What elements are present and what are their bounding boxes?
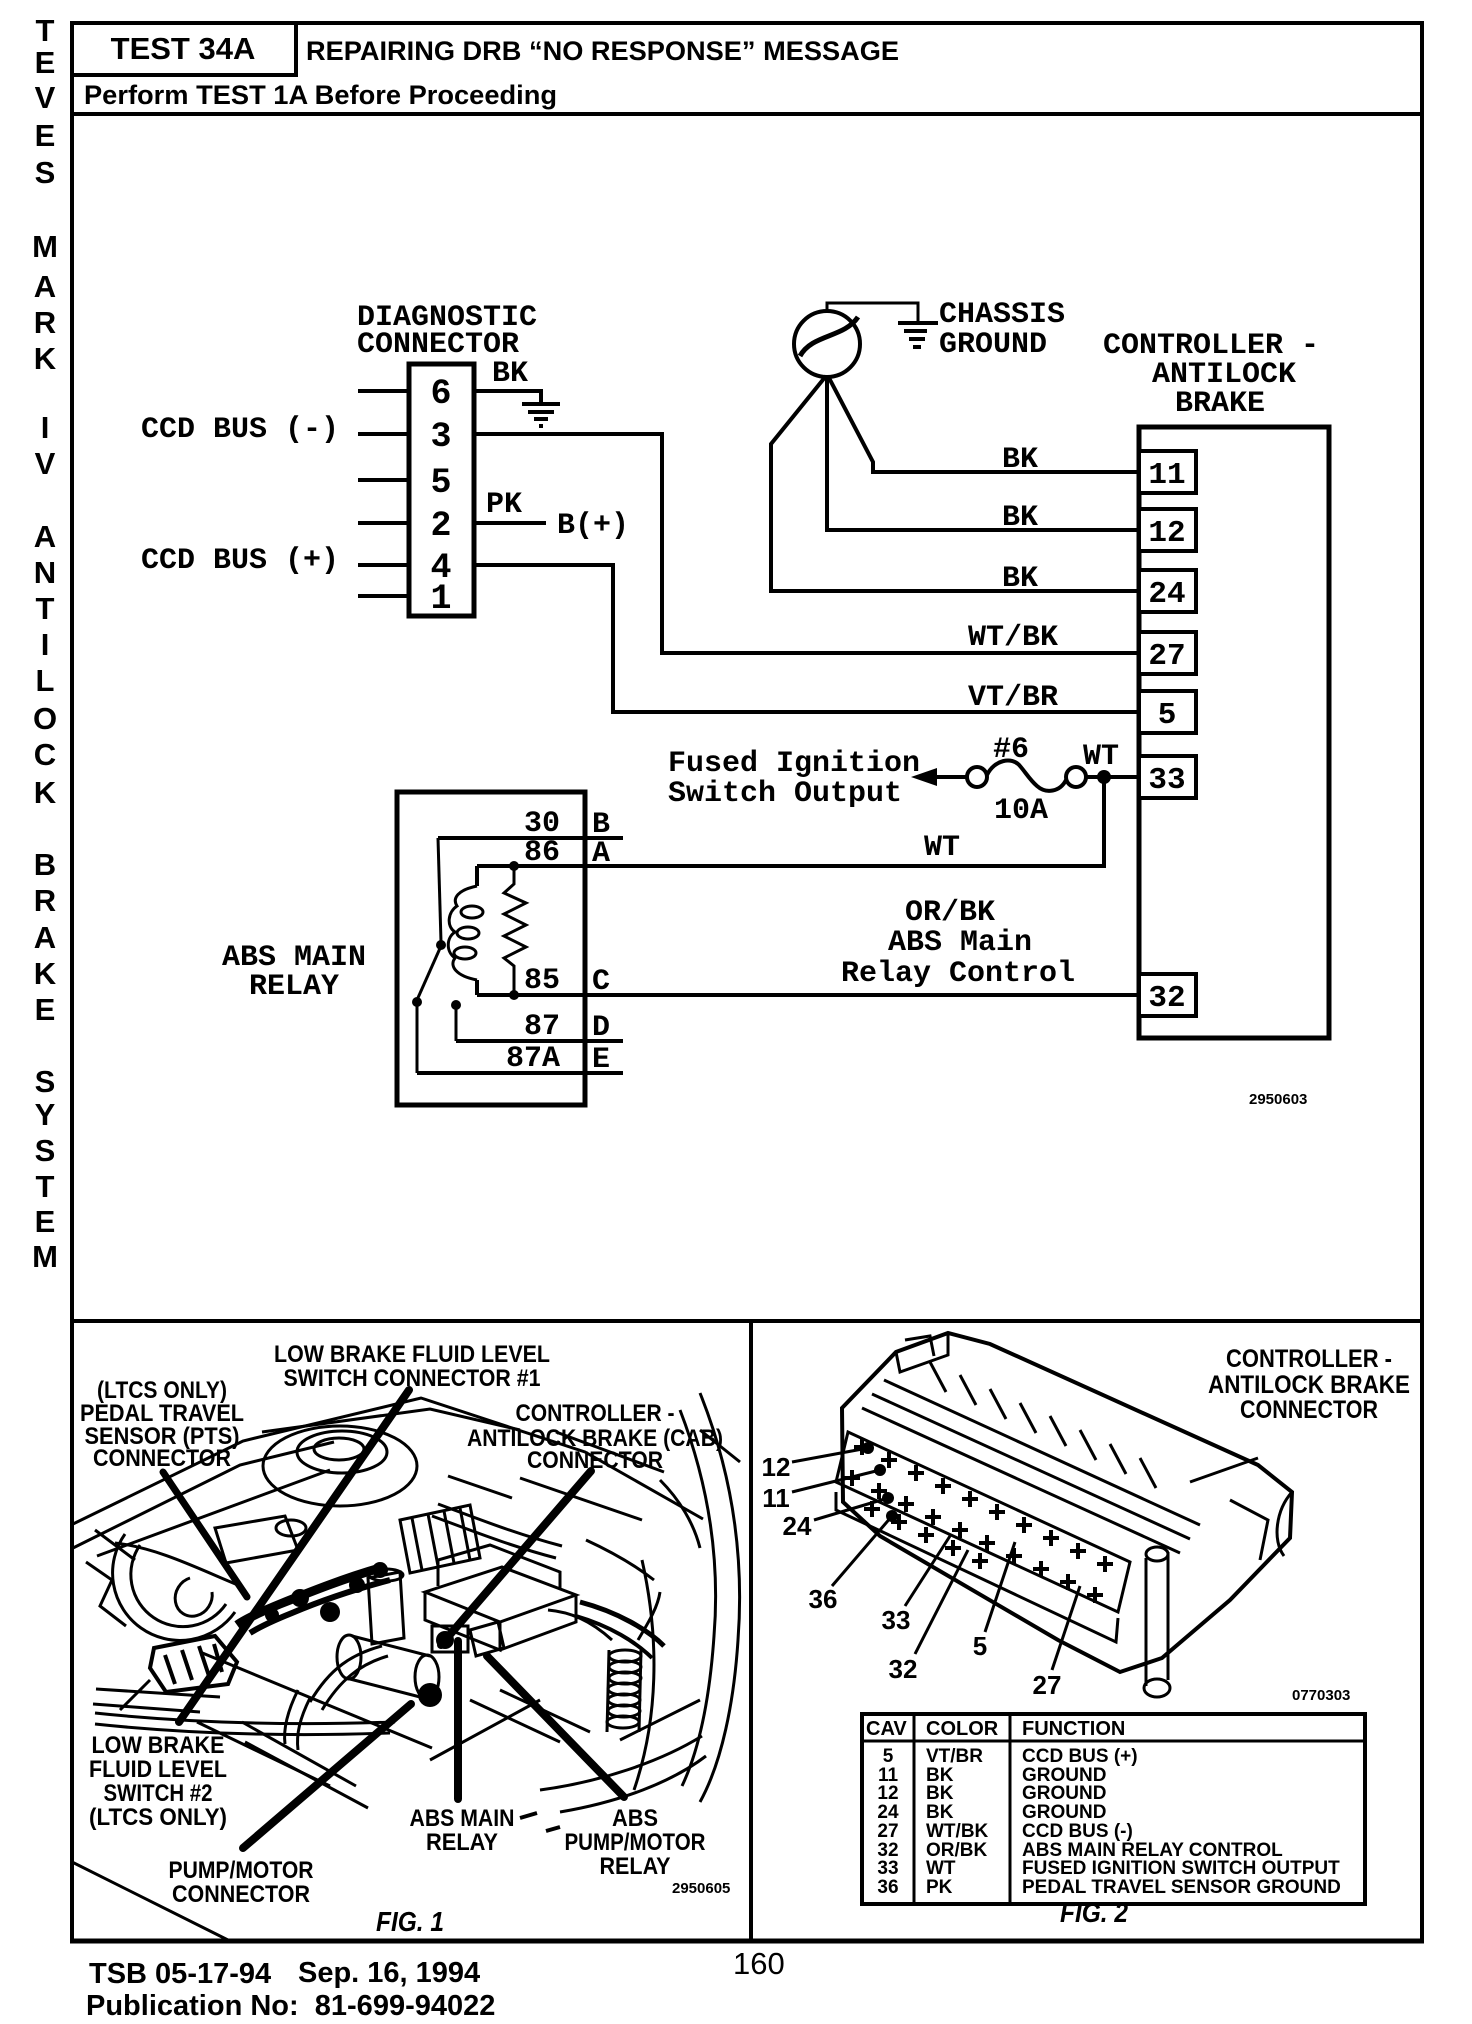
- svg-text:FIG. 1: FIG. 1: [376, 1906, 444, 1937]
- svg-text:C: C: [592, 965, 610, 999]
- svg-text:Relay Control: Relay Control: [841, 957, 1075, 991]
- svg-text:CCD BUS (+): CCD BUS (+): [141, 544, 339, 578]
- svg-text:CAV: CAV: [866, 1718, 907, 1740]
- svg-text:27: 27: [1148, 639, 1185, 674]
- svg-text:2950603: 2950603: [1249, 1091, 1307, 1108]
- svg-text:87: 87: [524, 1010, 560, 1044]
- svg-text:36: 36: [877, 1877, 898, 1898]
- svg-text:REPAIRING DRB “NO RESPONSE” ME: REPAIRING DRB “NO RESPONSE” MESSAGE: [306, 36, 899, 66]
- svg-text:3: 3: [430, 417, 451, 457]
- svg-text:(LTCS ONLY): (LTCS ONLY): [89, 1804, 227, 1831]
- svg-text:GROUND: GROUND: [1022, 1802, 1106, 1823]
- svg-text:R: R: [34, 305, 56, 340]
- svg-text:2950605: 2950605: [672, 1880, 730, 1897]
- svg-text:87A: 87A: [506, 1042, 560, 1076]
- svg-text:CCD BUS (-): CCD BUS (-): [141, 413, 339, 447]
- svg-text:E: E: [592, 1043, 610, 1077]
- svg-text:CONNECTOR: CONNECTOR: [527, 1447, 663, 1474]
- svg-text:TSB 05-17-94: TSB 05-17-94: [89, 1958, 271, 1990]
- svg-text:160: 160: [733, 1946, 785, 1981]
- svg-text:RELAY: RELAY: [600, 1853, 671, 1880]
- svg-text:K: K: [34, 341, 57, 376]
- svg-text:LOW BRAKE FLUID LEVEL: LOW BRAKE FLUID LEVEL: [274, 1341, 550, 1368]
- svg-text:A: A: [34, 269, 56, 304]
- svg-text:5: 5: [883, 1746, 894, 1767]
- svg-text:BK: BK: [492, 357, 528, 391]
- svg-text:SWITCH #2: SWITCH #2: [104, 1780, 213, 1807]
- svg-text:GROUND: GROUND: [1022, 1783, 1106, 1804]
- svg-text:36: 36: [809, 1584, 838, 1614]
- svg-text:BK: BK: [926, 1783, 954, 1804]
- svg-text:GROUND: GROUND: [939, 328, 1047, 362]
- svg-text:V: V: [35, 446, 56, 481]
- svg-text:E: E: [35, 45, 56, 80]
- svg-text:FUNCTION: FUNCTION: [1022, 1718, 1125, 1740]
- svg-text:FUSED IGNITION SWITCH OUTPUT: FUSED IGNITION SWITCH OUTPUT: [1022, 1858, 1340, 1879]
- svg-text:32: 32: [889, 1654, 918, 1684]
- svg-text:T: T: [36, 13, 55, 48]
- svg-text:PUMP/MOTOR: PUMP/MOTOR: [169, 1857, 314, 1884]
- svg-text:BK: BK: [1002, 562, 1038, 596]
- svg-text:FLUID LEVEL: FLUID LEVEL: [89, 1756, 227, 1783]
- svg-text:12: 12: [877, 1783, 898, 1804]
- svg-text:Sep. 16, 1994: Sep. 16, 1994: [298, 1957, 480, 1989]
- svg-text:WT: WT: [926, 1858, 956, 1879]
- svg-text:OR/BK: OR/BK: [905, 896, 995, 930]
- svg-text:WT: WT: [924, 831, 960, 865]
- svg-text:5: 5: [973, 1631, 987, 1661]
- svg-text:B: B: [34, 847, 56, 882]
- svg-text:VT/BR: VT/BR: [968, 681, 1058, 715]
- svg-text:Fused Ignition: Fused Ignition: [668, 747, 920, 781]
- svg-text:A: A: [34, 920, 56, 955]
- svg-text:K: K: [34, 775, 57, 810]
- svg-text:ABS: ABS: [612, 1805, 658, 1832]
- svg-text:33: 33: [1148, 763, 1185, 798]
- svg-text:12: 12: [1148, 516, 1185, 551]
- svg-text:WT: WT: [1083, 740, 1119, 774]
- svg-text:TEST 34A: TEST 34A: [111, 31, 256, 66]
- svg-text:O: O: [33, 701, 57, 736]
- svg-text:CONNECTOR: CONNECTOR: [172, 1881, 310, 1908]
- svg-text:R: R: [34, 883, 56, 918]
- svg-text:S: S: [35, 1064, 56, 1099]
- svg-text:V: V: [35, 80, 56, 115]
- svg-text:CONTROLLER -: CONTROLLER -: [1226, 1345, 1392, 1373]
- svg-text:ABS Main: ABS Main: [888, 926, 1032, 960]
- svg-text:PK: PK: [486, 488, 522, 522]
- svg-text:M: M: [32, 229, 58, 264]
- svg-text:27: 27: [1033, 1670, 1062, 1700]
- svg-text:E: E: [35, 118, 56, 153]
- svg-text:0770303: 0770303: [1292, 1687, 1350, 1704]
- svg-text:WT/BK: WT/BK: [968, 621, 1058, 655]
- svg-text:T: T: [36, 1169, 55, 1204]
- svg-text:11: 11: [762, 1483, 790, 1513]
- svg-text:N: N: [34, 555, 56, 590]
- svg-text:1: 1: [430, 579, 451, 619]
- svg-text:Y: Y: [35, 1097, 56, 1132]
- svg-text:L: L: [36, 663, 55, 698]
- svg-text:D: D: [592, 1011, 610, 1045]
- svg-text:86: 86: [524, 836, 560, 870]
- svg-text:24: 24: [783, 1511, 812, 1541]
- svg-text:E: E: [35, 992, 56, 1027]
- svg-text:#6: #6: [993, 733, 1029, 767]
- svg-text:85: 85: [524, 964, 560, 998]
- svg-text:2: 2: [430, 506, 451, 546]
- svg-text:PUMP/MOTOR: PUMP/MOTOR: [565, 1829, 706, 1856]
- svg-text:S: S: [35, 155, 56, 190]
- svg-text:ABS MAIN: ABS MAIN: [410, 1805, 515, 1832]
- svg-text:BK: BK: [926, 1802, 954, 1823]
- svg-text:27: 27: [877, 1821, 898, 1842]
- svg-text:RELAY: RELAY: [249, 970, 339, 1004]
- svg-text:COLOR: COLOR: [926, 1718, 999, 1740]
- svg-text:5: 5: [1158, 698, 1177, 733]
- svg-text:5: 5: [430, 463, 451, 503]
- svg-text:A: A: [592, 837, 610, 871]
- svg-text:C: C: [34, 737, 56, 772]
- svg-text:Publication No: 81-699-94022: Publication No: 81-699-94022: [86, 1990, 495, 2022]
- svg-text:I: I: [41, 410, 50, 445]
- svg-text:Perform TEST 1A Before Proceed: Perform TEST 1A Before Proceeding: [84, 80, 557, 110]
- svg-text:FIG. 2: FIG. 2: [1060, 1897, 1128, 1928]
- svg-text:I: I: [41, 627, 50, 662]
- svg-text:B(+): B(+): [557, 509, 629, 543]
- svg-text:LOW BRAKE: LOW BRAKE: [92, 1732, 225, 1759]
- svg-text:VT/BR: VT/BR: [926, 1746, 983, 1767]
- svg-text:A: A: [34, 519, 56, 554]
- svg-text:RELAY: RELAY: [426, 1829, 498, 1856]
- svg-text:24: 24: [1148, 577, 1185, 612]
- svg-text:6: 6: [430, 374, 451, 414]
- svg-text:CONNECTOR: CONNECTOR: [1240, 1396, 1378, 1424]
- svg-text:CCD BUS (+): CCD BUS (+): [1022, 1746, 1138, 1767]
- svg-text:CHASSIS: CHASSIS: [939, 298, 1065, 332]
- svg-text:Switch Output: Switch Output: [668, 777, 902, 811]
- svg-text:K: K: [34, 956, 57, 991]
- svg-text:10A: 10A: [994, 794, 1048, 828]
- svg-text:M: M: [32, 1239, 58, 1274]
- svg-text:PK: PK: [926, 1877, 953, 1898]
- svg-text:BRAKE: BRAKE: [1175, 387, 1265, 421]
- svg-text:11: 11: [1148, 458, 1185, 493]
- svg-text:BK: BK: [1002, 501, 1038, 535]
- svg-text:PEDAL TRAVEL SENSOR GROUND: PEDAL TRAVEL SENSOR GROUND: [1022, 1877, 1341, 1898]
- svg-text:32: 32: [1148, 981, 1185, 1016]
- svg-text:24: 24: [877, 1802, 899, 1823]
- svg-text:E: E: [35, 1204, 56, 1239]
- svg-text:12: 12: [762, 1452, 791, 1482]
- svg-text:CONTROLLER -: CONTROLLER -: [516, 1400, 675, 1427]
- svg-text:WT/BK: WT/BK: [926, 1821, 989, 1842]
- svg-text:CCD BUS (-): CCD BUS (-): [1022, 1821, 1133, 1842]
- svg-text:S: S: [35, 1133, 56, 1168]
- svg-text:T: T: [36, 591, 55, 626]
- svg-text:33: 33: [882, 1605, 911, 1635]
- svg-text:ANTILOCK BRAKE: ANTILOCK BRAKE: [1208, 1371, 1410, 1399]
- svg-text:BK: BK: [1002, 443, 1038, 477]
- svg-text:33: 33: [877, 1858, 898, 1879]
